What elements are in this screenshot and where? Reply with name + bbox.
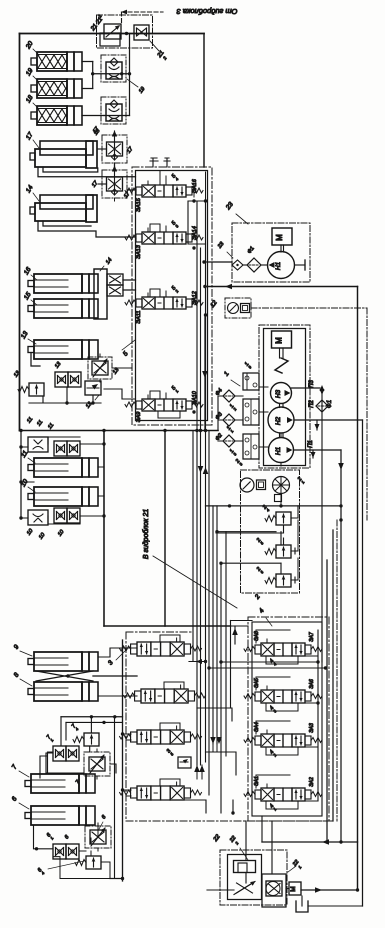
bundle jog into block3 row4 <box>197 765 202 779</box>
suction line 23 <box>204 261 232 263</box>
motor M 22_1 <box>289 882 301 895</box>
main trunk vertical from top corner <box>203 34 205 168</box>
shaft H2-H1 <box>279 433 281 437</box>
valve row EA4/EA3 <box>244 738 255 743</box>
motor M of unit 23 <box>272 228 292 245</box>
hydraulic cylinder 11 <box>28 465 34 471</box>
pump delivery P3 <box>292 387 321 389</box>
unit22 feed from left <box>207 889 234 891</box>
throttle 22 <box>237 883 253 893</box>
filter feed lines <box>218 396 223 441</box>
block4 row bottom loops <box>266 656 298 664</box>
drain 2_5 <box>291 548 295 554</box>
return arrow row1 <box>189 661 206 663</box>
telescopic cylinder 17 <box>40 141 93 155</box>
filter F4 <box>223 390 235 402</box>
valve 11_1 twin <box>54 441 67 456</box>
P3 arrows <box>320 385 325 391</box>
drain 2_6 <box>291 577 295 583</box>
valve row 3-3 <box>120 734 131 739</box>
block3 left port stubs <box>123 734 132 796</box>
filter F2 <box>223 435 235 447</box>
22_2 to throttle link <box>245 873 247 884</box>
svg-text:Н2: Н2 <box>275 416 282 425</box>
pump delivery P2 <box>294 419 363 421</box>
hydraulic cylinder 9 <box>28 659 34 665</box>
svg-text:ЭА11: ЭА11 <box>136 310 142 323</box>
valve row EA5/EA6 <box>244 694 255 699</box>
tank feed line <box>308 905 363 907</box>
crossover to block3 <box>93 675 137 677</box>
gauge 2_3 <box>240 478 254 492</box>
svg-text:ЭА15: ЭА15 <box>136 197 142 212</box>
telescopic cylinder 14 <box>40 195 93 209</box>
wire cyl18 port <box>82 115 104 117</box>
valve 11_3 <box>28 437 48 452</box>
bottom return header <box>262 841 358 843</box>
svg-text:П2: П2 <box>309 399 315 407</box>
bundle to block4 connectors <box>221 661 318 663</box>
valve row 3-4 <box>120 790 131 795</box>
svg-text:ЭА16: ЭА16 <box>192 178 198 193</box>
right return trunk vertical <box>357 287 359 891</box>
hydroblock 5 inner plate <box>136 171 208 421</box>
valve row 3-1 <box>120 646 131 651</box>
relief 2_6 feed <box>221 562 281 564</box>
row 3-1 piping <box>160 635 180 642</box>
relief 2_5 <box>276 545 291 558</box>
svg-text:ЭА7: ЭА7 <box>309 632 315 642</box>
pump delivery P1 <box>294 449 342 451</box>
svg-text:ЭА1: ЭА1 <box>254 776 260 786</box>
unit2 bottom dots <box>339 518 342 521</box>
left feed line 11/10 <box>20 431 22 519</box>
hydraulic cylinder 18 <box>31 112 37 119</box>
cyl6 throttle feed <box>97 825 99 837</box>
delivery risers <box>340 450 342 842</box>
svg-text:ЭА6: ЭА6 <box>309 679 315 689</box>
return line from 23 to tank trunk <box>205 286 358 288</box>
manifold 1 couplings bottom <box>243 434 259 459</box>
svg-text:П3: П3 <box>309 379 315 387</box>
check valve 23_1 <box>232 260 243 270</box>
unit2 supply bus <box>206 505 342 507</box>
pump H1 <box>269 438 294 463</box>
tank symbol <box>296 901 308 912</box>
motor shaft <box>279 348 281 358</box>
hydroblock 3 dash-dot boundary <box>125 632 127 821</box>
cyl6 group wiring <box>34 825 54 849</box>
hydraulic cylinder 19 <box>31 85 37 92</box>
right collector 11/10 <box>48 437 104 524</box>
pump 22_1 <box>266 881 282 896</box>
down arrow on trunk <box>202 371 208 378</box>
hydraulic cylinder 8 <box>28 689 34 695</box>
hydraulic cylinder 20 <box>31 58 37 65</box>
cluster 13 bus <box>29 387 101 403</box>
unit 12 enclosure <box>225 298 251 318</box>
wire cyl20 to manifold <box>82 61 93 63</box>
valve row 3-2 <box>124 693 135 698</box>
unit 21 dash-dot enclosure <box>97 15 153 48</box>
shaft H3-H2 <box>279 404 281 408</box>
unit 22 inner frame <box>228 855 262 900</box>
valve 10_2 <box>28 510 48 525</box>
unit 23 dash-dot enclosure <box>232 223 310 282</box>
unit2 internal wiring <box>291 506 298 518</box>
block 5 internal return lines <box>193 185 195 197</box>
cluster 7 loop <box>46 746 116 773</box>
pre-block4 feed line <box>231 620 253 622</box>
cyl9 wiring <box>98 648 137 657</box>
row 3-4 routing <box>140 800 233 813</box>
wires 13 cluster to block5 <box>104 368 136 399</box>
hydroblock 4 dash-dot boundary <box>248 617 329 821</box>
filter F1 on P2 riser <box>316 400 328 412</box>
pump 23 drive end <box>295 264 306 266</box>
relief valve 13_4 <box>29 383 44 396</box>
cyl 13 left piping <box>31 353 40 366</box>
check valve block 14_1 <box>107 274 123 285</box>
cyl8 wiring <box>98 695 137 697</box>
valve EA9/EA10 row <box>125 402 136 407</box>
junction node at unit 21 <box>125 32 128 35</box>
relief 2_5 feed <box>217 531 276 533</box>
shaft coupling zigzag <box>275 358 288 373</box>
svg-text:П1: П1 <box>308 440 314 448</box>
relief 2_5 drain loop <box>291 520 298 551</box>
svg-text:ЭА2: ЭА2 <box>309 777 315 787</box>
dash-dot control line riser <box>336 520 338 821</box>
svg-text:ЭА9: ЭА9 <box>136 412 142 423</box>
unit 22 dash-dot enclosure <box>220 850 287 905</box>
row4 pilot riser <box>150 391 166 399</box>
hydroblock 5 dash-dot enclosure <box>132 167 212 425</box>
svg-text:ЭА8: ЭА8 <box>254 631 260 641</box>
filter F3 <box>223 414 235 426</box>
twin valve 7_1 <box>53 746 66 761</box>
P2 right riser <box>362 420 364 906</box>
wires 14_1 to block5 <box>123 279 136 281</box>
frame top border <box>20 33 205 35</box>
filter F1 of unit 23 <box>247 258 261 272</box>
row 3-2 piping <box>164 682 184 689</box>
row 3-4 piping2 <box>160 779 180 786</box>
valve 17_1 left port <box>98 183 107 185</box>
block4 right collectors <box>317 630 319 801</box>
valve EA13/EA14 row <box>125 235 136 240</box>
frame left border <box>19 34 21 431</box>
row1 left stub <box>127 189 136 191</box>
unit 2 dash-dot enclosure <box>241 470 300 593</box>
wire cyl18 through 18_1 <box>104 115 130 117</box>
svg-text:В гидроблок 21: В гидроблок 21 <box>142 509 150 559</box>
row2 pilot riser <box>150 224 166 232</box>
pilot dashed line to unit 21 <box>122 11 164 13</box>
valve 17_2 left port <box>98 148 107 150</box>
relief 2_4 <box>276 512 291 525</box>
pilot port symbol atop block 5 <box>150 158 170 167</box>
svg-text:М: М <box>290 886 297 891</box>
row 3-3 piping <box>160 723 180 730</box>
check valve 13_2 <box>85 381 101 395</box>
vertical trunk bundle to lower blocks <box>192 431 194 662</box>
pump suction stubs <box>280 433 282 466</box>
valve 13_1 twin <box>55 372 68 387</box>
block 3 feed verticals <box>122 640 124 881</box>
hydraulic cylinder 6 <box>25 813 31 819</box>
shared return line clusters 6/7 <box>114 717 116 879</box>
wire to check block <box>93 73 130 75</box>
junction dots block5 right <box>192 199 195 202</box>
row1 pilot riser <box>159 171 161 186</box>
pump H2 <box>268 407 294 433</box>
relief 7_4 <box>84 733 99 746</box>
cluster 6 loop <box>53 838 110 879</box>
callout diagonal <box>153 556 237 608</box>
tank line 22 <box>301 889 358 891</box>
relief valve 21_1 <box>104 24 121 39</box>
motor M pump station <box>272 331 292 348</box>
throttle valve 17_1 <box>102 170 127 198</box>
right return riser B <box>326 560 328 842</box>
selector 2_1 <box>273 477 290 494</box>
cyl 17 piping loop <box>38 167 136 177</box>
check valve 21_2 <box>134 25 149 40</box>
hydroblock 21 line right edge <box>164 431 166 627</box>
bundle arrows <box>198 466 204 473</box>
hydraulic cylinder 13 <box>28 347 34 353</box>
riser arrows <box>315 424 320 430</box>
bottom drain to tank <box>301 896 303 906</box>
valve row EA8/EA7 <box>244 647 255 652</box>
pump H1 of unit 23 <box>268 252 295 279</box>
up arrow feeder <box>234 626 236 644</box>
to hydroblock 21 line <box>104 625 231 627</box>
check valve block 18_1 <box>101 97 126 124</box>
check valve block 19_1 <box>101 55 126 82</box>
main horizontal bus <box>20 430 219 432</box>
manifold 1 couplings mid <box>243 399 259 425</box>
block 4 inner frame <box>252 622 322 816</box>
block5 right vertical to bus <box>205 201 207 430</box>
hydraulic cylinder 10 <box>28 494 34 500</box>
valve EA15/EA16 row <box>125 188 136 193</box>
valve EA11/EA12 row <box>125 300 136 305</box>
pump 22_1 frame <box>262 874 286 907</box>
gauge of unit 12 <box>228 303 239 314</box>
cluster 6 to block <box>121 877 124 880</box>
pump station dash-dot enclosure <box>259 325 310 468</box>
crossover linkage 8/9 <box>36 671 93 681</box>
hydraulic cylinder 16 <box>28 281 34 287</box>
selector drain box <box>275 495 282 502</box>
block4 row routing rectangles <box>256 630 290 788</box>
svg-text:ЭА13: ЭА13 <box>136 244 142 259</box>
throttle 6_2 <box>85 826 111 848</box>
wire check 19_1 to 18_1 <box>113 82 115 97</box>
svg-text:Ф1: Ф1 <box>327 400 333 408</box>
blocks 3/4 common bottom dash-dot <box>126 820 332 822</box>
svg-text:Н3: Н3 <box>275 389 282 398</box>
svg-text:М: М <box>275 234 284 241</box>
link 21 to check block riser <box>129 34 131 116</box>
twin valve 6_1 <box>53 844 66 859</box>
right return riser A <box>332 530 334 821</box>
pump H3 <box>271 383 292 404</box>
motor shaft 23 <box>280 245 282 252</box>
cyl 14 piping loop <box>38 221 136 237</box>
selector of unit 12 <box>241 304 250 313</box>
relief 2_6 drain loop <box>291 558 298 580</box>
wire 17_2 to 17_1 <box>114 163 116 170</box>
pump station inner frame <box>264 329 306 466</box>
bundle jog to block4 mid <box>197 708 232 721</box>
row4 bottom loop <box>158 411 180 418</box>
pilot valve 22_2 <box>234 861 256 873</box>
hydraulic cylinder 15 <box>28 306 34 312</box>
throttle valve 17_2 <box>102 135 127 163</box>
manifold 1 couplings top <box>243 373 259 390</box>
svg-text:Н1: Н1 <box>275 446 282 455</box>
svg-text:ЭА3: ЭА3 <box>309 723 315 733</box>
check 3_5 <box>178 757 191 768</box>
22 wiring <box>245 821 247 861</box>
hydraulic cylinder 7 <box>25 781 31 787</box>
shared end plate 15/16 <box>94 269 107 319</box>
svg-text:От гидроблока 3: От гидроблока 3 <box>176 7 238 16</box>
row3 pilot riser <box>150 289 166 297</box>
dash link from 12 <box>251 307 367 309</box>
cyl7 group wiring <box>61 716 123 718</box>
valve row EA1/EA2 <box>244 792 255 797</box>
svg-text:ЭА4: ЭА4 <box>254 722 260 732</box>
svg-text:ЭА5: ЭА5 <box>254 678 260 688</box>
relief 6_4 <box>86 856 101 869</box>
valve 10_1 twin <box>54 508 67 523</box>
relief 2_6 <box>276 574 291 587</box>
block4 drain to pump 22_1 <box>271 821 273 874</box>
throttle 7_2 <box>84 752 110 776</box>
throttle 13_5 <box>88 357 112 379</box>
valve 2_2 <box>257 480 266 490</box>
svg-text:М: М <box>275 337 284 344</box>
svg-text:Н1: Н1 <box>275 261 282 270</box>
